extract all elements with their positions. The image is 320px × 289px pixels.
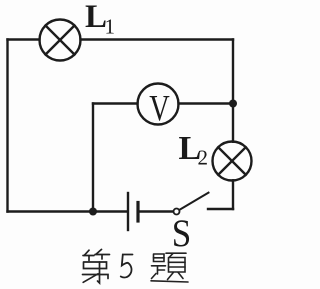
voltmeter U1 V bbox=[138, 84, 179, 125]
svg-text:V: V bbox=[149, 89, 170, 130]
lamp L1 bbox=[40, 20, 81, 61]
wire top-left horizontal bbox=[8, 38, 40, 40]
wire voltmeter right to node bbox=[179, 102, 234, 104]
wire battery to switch bbox=[140, 210, 174, 212]
battery B1 bbox=[128, 193, 138, 230]
node junction bottom bbox=[89, 208, 97, 216]
svg-text:2: 2 bbox=[198, 146, 209, 170]
wire L2 bottom vertical bbox=[232, 180, 234, 209]
caption: character 第 bbox=[83, 249, 110, 283]
wire bottom horizontal to battery bbox=[8, 210, 127, 212]
wire switch right contact bbox=[208, 208, 233, 210]
caption: character 题 bbox=[151, 253, 188, 282]
wire top horizontal from L1 to right side bbox=[81, 38, 234, 40]
label L1 bbox=[85, 0, 115, 39]
wire voltmeter left bbox=[93, 102, 138, 104]
wire left vertical bbox=[6, 40, 8, 212]
svg-text:S: S bbox=[172, 212, 192, 255]
caption: digit 5 bbox=[121, 255, 133, 278]
node junction right bbox=[229, 100, 237, 108]
lamp L2 bbox=[213, 142, 252, 181]
wire middle vertical bbox=[92, 104, 94, 212]
svg-text:1: 1 bbox=[105, 15, 116, 39]
wire right vertical from top to L2 bbox=[232, 40, 234, 142]
label L2 bbox=[179, 130, 209, 170]
switch S bbox=[174, 193, 209, 215]
